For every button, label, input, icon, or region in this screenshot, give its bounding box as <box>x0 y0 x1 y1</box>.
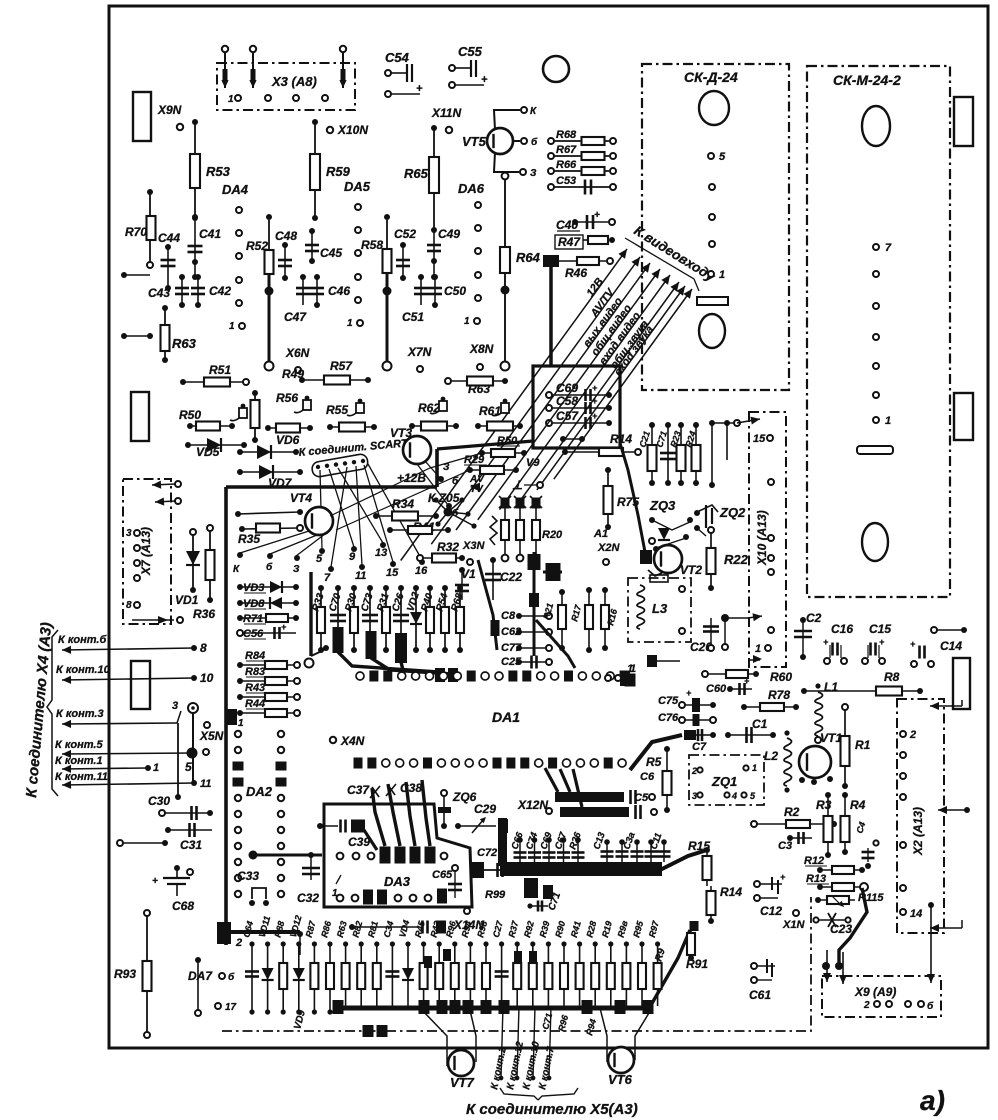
svg-text:1: 1 <box>332 888 338 899</box>
component R31 <box>383 585 389 591</box>
wire <box>560 436 566 442</box>
svg-text:R14: R14 <box>720 885 742 899</box>
resistor R86 <box>327 941 332 946</box>
wire to shield box <box>549 266 553 366</box>
svg-text:9: 9 <box>349 551 356 563</box>
svg-text:+: + <box>594 210 600 221</box>
svg-text:С12: С12 <box>760 904 782 918</box>
svg-text:С44: С44 <box>158 231 180 245</box>
node X10N <box>327 127 333 133</box>
svg-text:R67: R67 <box>556 144 577 156</box>
svg-text:К соединителю Х5(А3): К соединителю Х5(А3) <box>466 1101 638 1118</box>
resistor R92 <box>530 941 535 946</box>
resistor R42 <box>437 941 442 946</box>
svg-text:Х10N: Х10N <box>337 123 368 137</box>
svg-text:R3: R3 <box>816 798 832 812</box>
resistor R75 <box>605 467 611 473</box>
wire <box>195 957 201 963</box>
X2 arrow top <box>961 700 963 706</box>
svg-text:8: 8 <box>126 600 132 611</box>
svg-text:Х7 (А13): Х7 (А13) <box>139 527 153 576</box>
pad hole right mid <box>954 393 973 440</box>
brace X4 <box>47 630 58 796</box>
svg-text:а): а) <box>920 1085 945 1116</box>
CK-M oval hole 2 <box>862 523 888 561</box>
black pads above rail <box>424 956 432 968</box>
svg-text:1: 1 <box>153 762 159 774</box>
svg-text:11: 11 <box>355 570 366 582</box>
pad hole left lower <box>131 661 150 709</box>
svg-text:С3: С3 <box>778 840 792 852</box>
resistor R28 <box>593 941 598 946</box>
diode VD12 <box>296 941 301 946</box>
svg-text:VD3: VD3 <box>243 582 264 594</box>
svg-text:R29: R29 <box>464 454 485 466</box>
wire К конт.12 <box>517 1006 519 1078</box>
capacitor С64 <box>249 941 254 946</box>
wire bundle line <box>554 289 692 479</box>
node X4N <box>330 737 336 743</box>
SCART connector body <box>311 453 369 477</box>
svg-text:С15: С15 <box>869 622 891 636</box>
connector X2 (A13) <box>897 699 944 933</box>
vertical resistors <box>559 589 565 595</box>
svg-text:С14: С14 <box>940 639 962 653</box>
svg-text:+12В: +12В <box>397 471 426 485</box>
thick trace left <box>309 572 312 656</box>
svg-text:С30: С30 <box>148 794 170 808</box>
svg-text:VT7: VT7 <box>450 1075 475 1090</box>
svg-text:С55: С55 <box>458 44 483 59</box>
svg-text:С56: С56 <box>243 628 264 640</box>
svg-text:+: + <box>780 872 786 882</box>
resistor R98 <box>483 941 488 946</box>
crystal cluster resistors <box>649 422 655 428</box>
svg-text:С37: С37 <box>347 783 370 797</box>
svg-text:R56: R56 <box>276 391 298 405</box>
thick trace to X9 <box>839 888 867 966</box>
svg-text:+: + <box>481 74 488 86</box>
X7 arrow 3 <box>132 619 174 621</box>
IC DA1 pads row 1 <box>356 672 364 680</box>
svg-text:б: б <box>531 136 538 148</box>
component R30 <box>351 585 357 591</box>
svg-text:R51: R51 <box>209 363 231 377</box>
svg-text:R64: R64 <box>516 250 541 265</box>
arrow into X9 c <box>928 902 934 908</box>
svg-text:С65: С65 <box>432 869 453 881</box>
svg-text:С60: С60 <box>706 683 727 695</box>
component С73 <box>367 585 373 591</box>
svg-text:R66: R66 <box>556 159 577 171</box>
svg-text:С41: С41 <box>199 227 221 241</box>
pad hole left top <box>133 92 151 141</box>
svg-text:К конт.1: К конт.1 <box>55 755 103 767</box>
resistor R65 <box>431 125 437 131</box>
svg-text:DA2: DA2 <box>246 784 273 799</box>
CK-D contacts <box>708 153 714 159</box>
svg-text:VD1: VD1 <box>175 593 199 607</box>
pad hole right top <box>954 97 973 146</box>
coil trace <box>490 516 497 545</box>
resistor R59 <box>312 119 318 125</box>
transistor VT2 <box>654 545 682 573</box>
svg-text:R47: R47 <box>558 235 581 249</box>
svg-text:б: б <box>266 561 273 573</box>
svg-text:17: 17 <box>225 1002 237 1013</box>
svg-text:2: 2 <box>863 1000 870 1011</box>
svg-text:С33: С33 <box>237 869 259 883</box>
svg-text:Х4N: Х4N <box>340 734 365 748</box>
svg-text:К Z05: К Z05 <box>428 491 460 505</box>
svg-text:R4: R4 <box>850 798 866 812</box>
resistor R82 <box>359 941 364 946</box>
svg-text:Х9 (А9): Х9 (А9) <box>854 985 896 999</box>
resistor R41 <box>577 941 582 946</box>
svg-text:R55: R55 <box>326 403 348 417</box>
arrow into X9 b <box>842 952 844 984</box>
wire <box>931 627 937 633</box>
svg-text:Х8N: Х8N <box>469 342 494 356</box>
wire bundle line <box>401 249 627 561</box>
connector X3 (A8) <box>217 63 355 110</box>
thick traces to DA1 <box>333 627 344 653</box>
wire К конт.2 <box>501 1006 503 1078</box>
shield bottom pad <box>217 922 231 944</box>
wire bundle line <box>456 263 650 530</box>
svg-text:+: + <box>416 83 423 95</box>
svg-text:1: 1 <box>238 718 244 729</box>
wire DA2 to DA3 <box>249 851 258 860</box>
svg-text:ZQ2: ZQ2 <box>719 505 746 520</box>
svg-text:R68: R68 <box>556 129 577 141</box>
svg-text:С52: С52 <box>394 227 416 241</box>
capacitor C6 C5 bars <box>555 792 624 802</box>
svg-text:R61: R61 <box>479 404 501 418</box>
component С26 <box>398 585 404 591</box>
pad hole right low <box>953 658 970 709</box>
svg-text:VD6: VD6 <box>276 433 300 447</box>
resistor R63 <box>164 308 166 360</box>
svg-text:R12: R12 <box>804 855 824 867</box>
svg-text:3: 3 <box>172 700 178 712</box>
connector X10 (A13) <box>749 412 786 667</box>
component R54 <box>442 585 448 591</box>
svg-text:8: 8 <box>200 641 207 655</box>
svg-text:С7: С7 <box>692 741 707 753</box>
svg-text:R50: R50 <box>497 435 518 447</box>
svg-text:+: + <box>281 622 287 632</box>
pad hole left mid <box>131 392 149 441</box>
resistor R36 <box>207 525 213 531</box>
svg-text:R84: R84 <box>245 650 265 662</box>
X10 arrow bottom <box>749 659 760 661</box>
svg-text:Х1N: Х1N <box>782 919 805 931</box>
svg-text:R44: R44 <box>245 698 265 710</box>
component С70 <box>335 585 341 591</box>
component VD2 <box>413 585 419 591</box>
svg-text:+: + <box>910 639 916 649</box>
module CK-M-24-2 <box>807 66 950 597</box>
svg-text:+: + <box>879 637 885 647</box>
svg-text:К конт.10: К конт.10 <box>56 664 111 676</box>
X10 arrow top <box>737 419 760 423</box>
svg-text:R32: R32 <box>437 540 459 554</box>
resistor R88 <box>281 941 286 946</box>
svg-text:15: 15 <box>386 567 399 579</box>
svg-text:10: 10 <box>200 671 214 685</box>
X3 pin 3 <box>340 46 346 52</box>
pads below band <box>524 878 538 898</box>
capacitor С27 <box>499 941 504 946</box>
svg-text:R53: R53 <box>206 164 231 179</box>
svg-text:R13: R13 <box>806 873 826 885</box>
svg-text:DA3: DA3 <box>384 874 411 889</box>
svg-text:С75: С75 <box>658 695 679 707</box>
svg-text:1: 1 <box>719 269 725 281</box>
svg-text:DA4: DA4 <box>222 182 249 197</box>
CK-D oval hole 2 <box>699 314 725 348</box>
svg-text:Х7N: Х7N <box>407 345 432 359</box>
svg-text:С68: С68 <box>172 899 194 913</box>
wire with cap <box>349 924 355 930</box>
wire bundle line <box>478 269 660 520</box>
svg-text:С38: С38 <box>400 781 422 795</box>
screw hole <box>543 56 569 82</box>
node X14N <box>464 908 470 914</box>
svg-text:К конт.5: К конт.5 <box>55 739 103 751</box>
svg-text:R20: R20 <box>542 529 563 541</box>
svg-text:R70: R70 <box>125 225 147 239</box>
X3 pin 2 <box>250 46 256 52</box>
diode VD6 <box>237 449 243 455</box>
diode VD7 <box>237 469 243 475</box>
svg-text:б: б <box>927 1000 934 1012</box>
svg-text:С61: С61 <box>749 988 771 1002</box>
resistor R94 <box>468 941 473 946</box>
svg-text:11: 11 <box>200 778 211 790</box>
svg-text:VT1: VT1 <box>820 731 842 745</box>
svg-text:С72: С72 <box>477 847 497 859</box>
resistor R97 <box>655 941 660 946</box>
svg-text:⊥: ⊥ <box>512 478 522 492</box>
brace X5 <box>500 1088 538 1100</box>
svg-text:X3 (А8): X3 (А8) <box>271 74 317 89</box>
svg-text:R99: R99 <box>485 889 506 901</box>
svg-text:R8: R8 <box>884 670 900 684</box>
resistor R46 <box>543 255 559 267</box>
svg-text:R22: R22 <box>724 552 749 567</box>
svg-text:R5: R5 <box>646 755 662 769</box>
connector X9 (A9) <box>822 976 941 1017</box>
svg-text:С5: С5 <box>634 792 649 804</box>
X3 pin 1 <box>222 46 228 52</box>
svg-text:+: + <box>823 637 829 647</box>
svg-text:5: 5 <box>316 553 323 565</box>
right capacitors <box>604 839 610 845</box>
thick traces into DA3 <box>372 788 385 846</box>
resistor R95 <box>639 941 644 946</box>
wire <box>121 333 127 339</box>
node X1N <box>793 910 799 916</box>
svg-text:L3: L3 <box>652 601 668 616</box>
svg-text:+: + <box>744 676 750 686</box>
svg-text:Х9N: Х9N <box>157 103 182 117</box>
capacitor С34 <box>390 941 395 946</box>
CK-D oval hole <box>699 91 729 125</box>
hub node <box>444 508 453 517</box>
svg-text:К конт.11: К конт.11 <box>55 771 108 783</box>
diode VD4 <box>405 941 410 946</box>
svg-text:R57: R57 <box>330 359 353 373</box>
svg-text:1: 1 <box>347 318 353 329</box>
svg-text:DA5: DA5 <box>344 179 371 194</box>
connector X7 (A13) <box>123 479 171 624</box>
svg-text:С45: С45 <box>320 246 342 260</box>
wire bundle line <box>431 257 640 544</box>
wire row <box>235 511 241 517</box>
svg-text:ZQ3: ZQ3 <box>649 498 676 513</box>
pad <box>647 655 657 667</box>
diode VD5 row <box>185 442 191 448</box>
svg-text:С53: С53 <box>556 175 576 187</box>
resistor R90 <box>561 941 566 946</box>
svg-text:ZQ1: ZQ1 <box>711 774 737 789</box>
svg-text:СК-М-24-2: СК-М-24-2 <box>833 72 901 88</box>
svg-text:R46: R46 <box>565 266 587 280</box>
svg-text:R60: R60 <box>770 670 792 684</box>
svg-text:З: З <box>293 564 300 575</box>
resistor R9в <box>624 941 629 946</box>
svg-text:V9: V9 <box>526 457 540 469</box>
arrow into X9 a <box>826 950 828 982</box>
svg-text:R63: R63 <box>172 336 197 351</box>
svg-text:VT6: VT6 <box>608 1072 633 1087</box>
svg-text:С54: С54 <box>385 50 410 65</box>
svg-text:13: 13 <box>375 547 387 559</box>
svg-text:СК-Д-24: СК-Д-24 <box>684 69 738 85</box>
svg-text:R36: R36 <box>193 607 215 621</box>
svg-text:Х5N: Х5N <box>199 729 224 743</box>
svg-text:R83: R83 <box>245 666 265 678</box>
svg-text:L2: L2 <box>764 749 778 763</box>
resistor R22 <box>708 527 714 533</box>
resistor cluster R18 R19 R20 <box>501 498 510 509</box>
wire К конт.7 <box>549 1006 551 1078</box>
svg-text:L1: L1 <box>824 680 838 694</box>
svg-text:R75: R75 <box>617 495 639 509</box>
svg-text:15: 15 <box>753 433 766 445</box>
main black band <box>500 862 662 876</box>
black pad <box>225 709 237 725</box>
svg-text:R35: R35 <box>238 532 260 546</box>
DA3 pads row 2 <box>337 895 344 902</box>
CK-D slot <box>697 297 728 305</box>
svg-text:+: + <box>686 688 692 698</box>
component R40 <box>427 585 433 591</box>
bottom rail <box>337 1006 652 1011</box>
svg-text:С46: С46 <box>328 284 350 298</box>
SCART pin numbers <box>319 548 325 554</box>
svg-text:R65: R65 <box>404 166 429 181</box>
shield trace outline <box>224 487 228 945</box>
svg-text:С49: С49 <box>438 227 460 241</box>
svg-text:+: + <box>592 383 598 393</box>
svg-text:С43: С43 <box>148 286 170 300</box>
svg-text:3: 3 <box>692 791 697 801</box>
transistor VT7 <box>448 1050 474 1076</box>
resistor R64 <box>502 173 509 180</box>
thick traces from DA1 <box>545 768 558 792</box>
svg-text:VT2: VT2 <box>680 563 702 577</box>
svg-text:С51: С51 <box>402 310 424 324</box>
wire К конт.10 <box>533 1006 535 1078</box>
svg-text:б: б <box>228 971 235 983</box>
svg-text:5: 5 <box>185 760 192 774</box>
svg-text:С32: С32 <box>297 891 319 905</box>
svg-text:R50: R50 <box>179 408 201 422</box>
svg-text:R78: R78 <box>768 688 790 702</box>
svg-text:А1: А1 <box>593 528 608 540</box>
svg-text:R93: R93 <box>114 967 136 981</box>
svg-text:2: 2 <box>691 766 697 776</box>
svg-text:VD8: VD8 <box>243 598 265 610</box>
resistor R87 <box>312 941 317 946</box>
svg-text:1: 1 <box>885 415 891 427</box>
svg-text:7: 7 <box>885 242 892 254</box>
transistor VT6 <box>608 1047 634 1073</box>
CK-M slot <box>857 446 893 454</box>
svg-text:+: + <box>152 876 158 887</box>
resistor R37 <box>515 941 520 946</box>
svg-text:R59: R59 <box>326 164 351 179</box>
svg-text:1: 1 <box>464 316 470 327</box>
svg-text:C8: C8 <box>501 610 516 622</box>
thick trace to C7 <box>630 735 682 770</box>
svg-text:16: 16 <box>415 565 428 577</box>
svg-text:С42: С42 <box>209 284 231 298</box>
svg-text:14: 14 <box>910 908 922 920</box>
svg-text:С2: С2 <box>806 611 822 625</box>
svg-text:Х2 (А13): Х2 (А13) <box>911 807 925 856</box>
capacitor C31 <box>168 829 212 831</box>
wires <box>709 420 715 426</box>
svg-text:С31: С31 <box>180 838 202 852</box>
svg-text:R58: R58 <box>361 238 383 252</box>
node X5N <box>188 703 198 713</box>
svg-text:4: 4 <box>731 791 737 801</box>
svg-text:С29: С29 <box>474 802 496 816</box>
svg-text:ТV: ТV <box>470 484 484 495</box>
inductor L3 box <box>628 578 691 642</box>
svg-text:1: 1 <box>228 94 234 105</box>
thin trace <box>330 453 482 516</box>
component R33 <box>318 585 324 591</box>
X2 arrow bottom <box>930 927 962 929</box>
thick trace R91 <box>647 930 690 1012</box>
resistor R81 <box>374 941 379 946</box>
X10 arrow mid <box>748 616 762 618</box>
svg-text:2: 2 <box>235 937 242 949</box>
wire <box>117 840 123 846</box>
svg-text:VT5: VT5 <box>462 134 487 149</box>
resistor R45 <box>421 941 426 946</box>
CK-M oval hole <box>862 106 890 146</box>
thick trace to R15 <box>660 850 707 870</box>
X7 arrow 2 <box>175 498 181 504</box>
svg-text:DA6: DA6 <box>458 181 485 196</box>
capacitor C24 column <box>459 567 465 573</box>
